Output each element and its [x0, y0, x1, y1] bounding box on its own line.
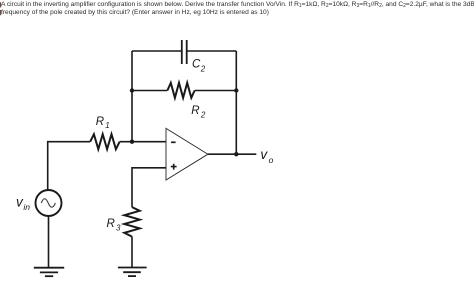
- wire left vertical from inverting node up to C2 branch: [131, 51, 133, 142]
- wire op-amp output: [208, 153, 256, 155]
- label vo: [260, 147, 273, 165]
- label R3: [107, 218, 122, 233]
- resistor R3: [124, 207, 139, 237]
- wire Vin bottom to ground: [48, 216, 50, 268]
- voltage source Vin: [36, 190, 62, 216]
- svg-text:o: o: [269, 155, 274, 165]
- op-amp U1: [166, 128, 208, 180]
- svg-text:2: 2: [200, 111, 206, 120]
- capacitor C2: [182, 40, 187, 64]
- node at output junction: [234, 152, 238, 156]
- cropped character artifact line2: [0, 10, 1, 15]
- svg-text:in: in: [23, 202, 30, 212]
- wire R2 right: [195, 90, 237, 92]
- label vin: [16, 194, 30, 212]
- wire right vertical down to output node: [235, 51, 237, 154]
- cropped character artifact line1: [0, 2, 1, 7]
- ground under R3: [118, 268, 147, 277]
- wire from Vin top to R1 left: [48, 142, 90, 191]
- node at inverting input junction: [130, 140, 134, 144]
- resistor R2: [167, 83, 194, 98]
- node at R2 left: [130, 88, 134, 92]
- svg-text:v: v: [260, 147, 268, 162]
- label R2: [191, 105, 206, 119]
- wire R2 left: [132, 90, 167, 92]
- svg-text:3: 3: [116, 224, 121, 233]
- ground under Vin: [34, 268, 64, 277]
- wire top left to capacitor: [132, 50, 181, 52]
- wire to op-amp non-inverting input: [132, 168, 166, 207]
- svg-text:1: 1: [105, 121, 109, 130]
- svg-text:2: 2: [200, 64, 206, 73]
- wire from R1 to op-amp inverting input: [120, 141, 166, 143]
- svg-text:R: R: [191, 105, 199, 117]
- node at R2 right: [234, 88, 238, 92]
- label C2: [192, 59, 206, 74]
- label R1: [96, 116, 110, 130]
- wire capacitor to top right corner: [187, 50, 236, 52]
- wire R3 to ground: [131, 237, 133, 268]
- svg-text:R: R: [96, 116, 104, 128]
- resistor R1: [90, 134, 119, 149]
- svg-text:C: C: [192, 59, 201, 71]
- svg-text:R: R: [107, 218, 115, 230]
